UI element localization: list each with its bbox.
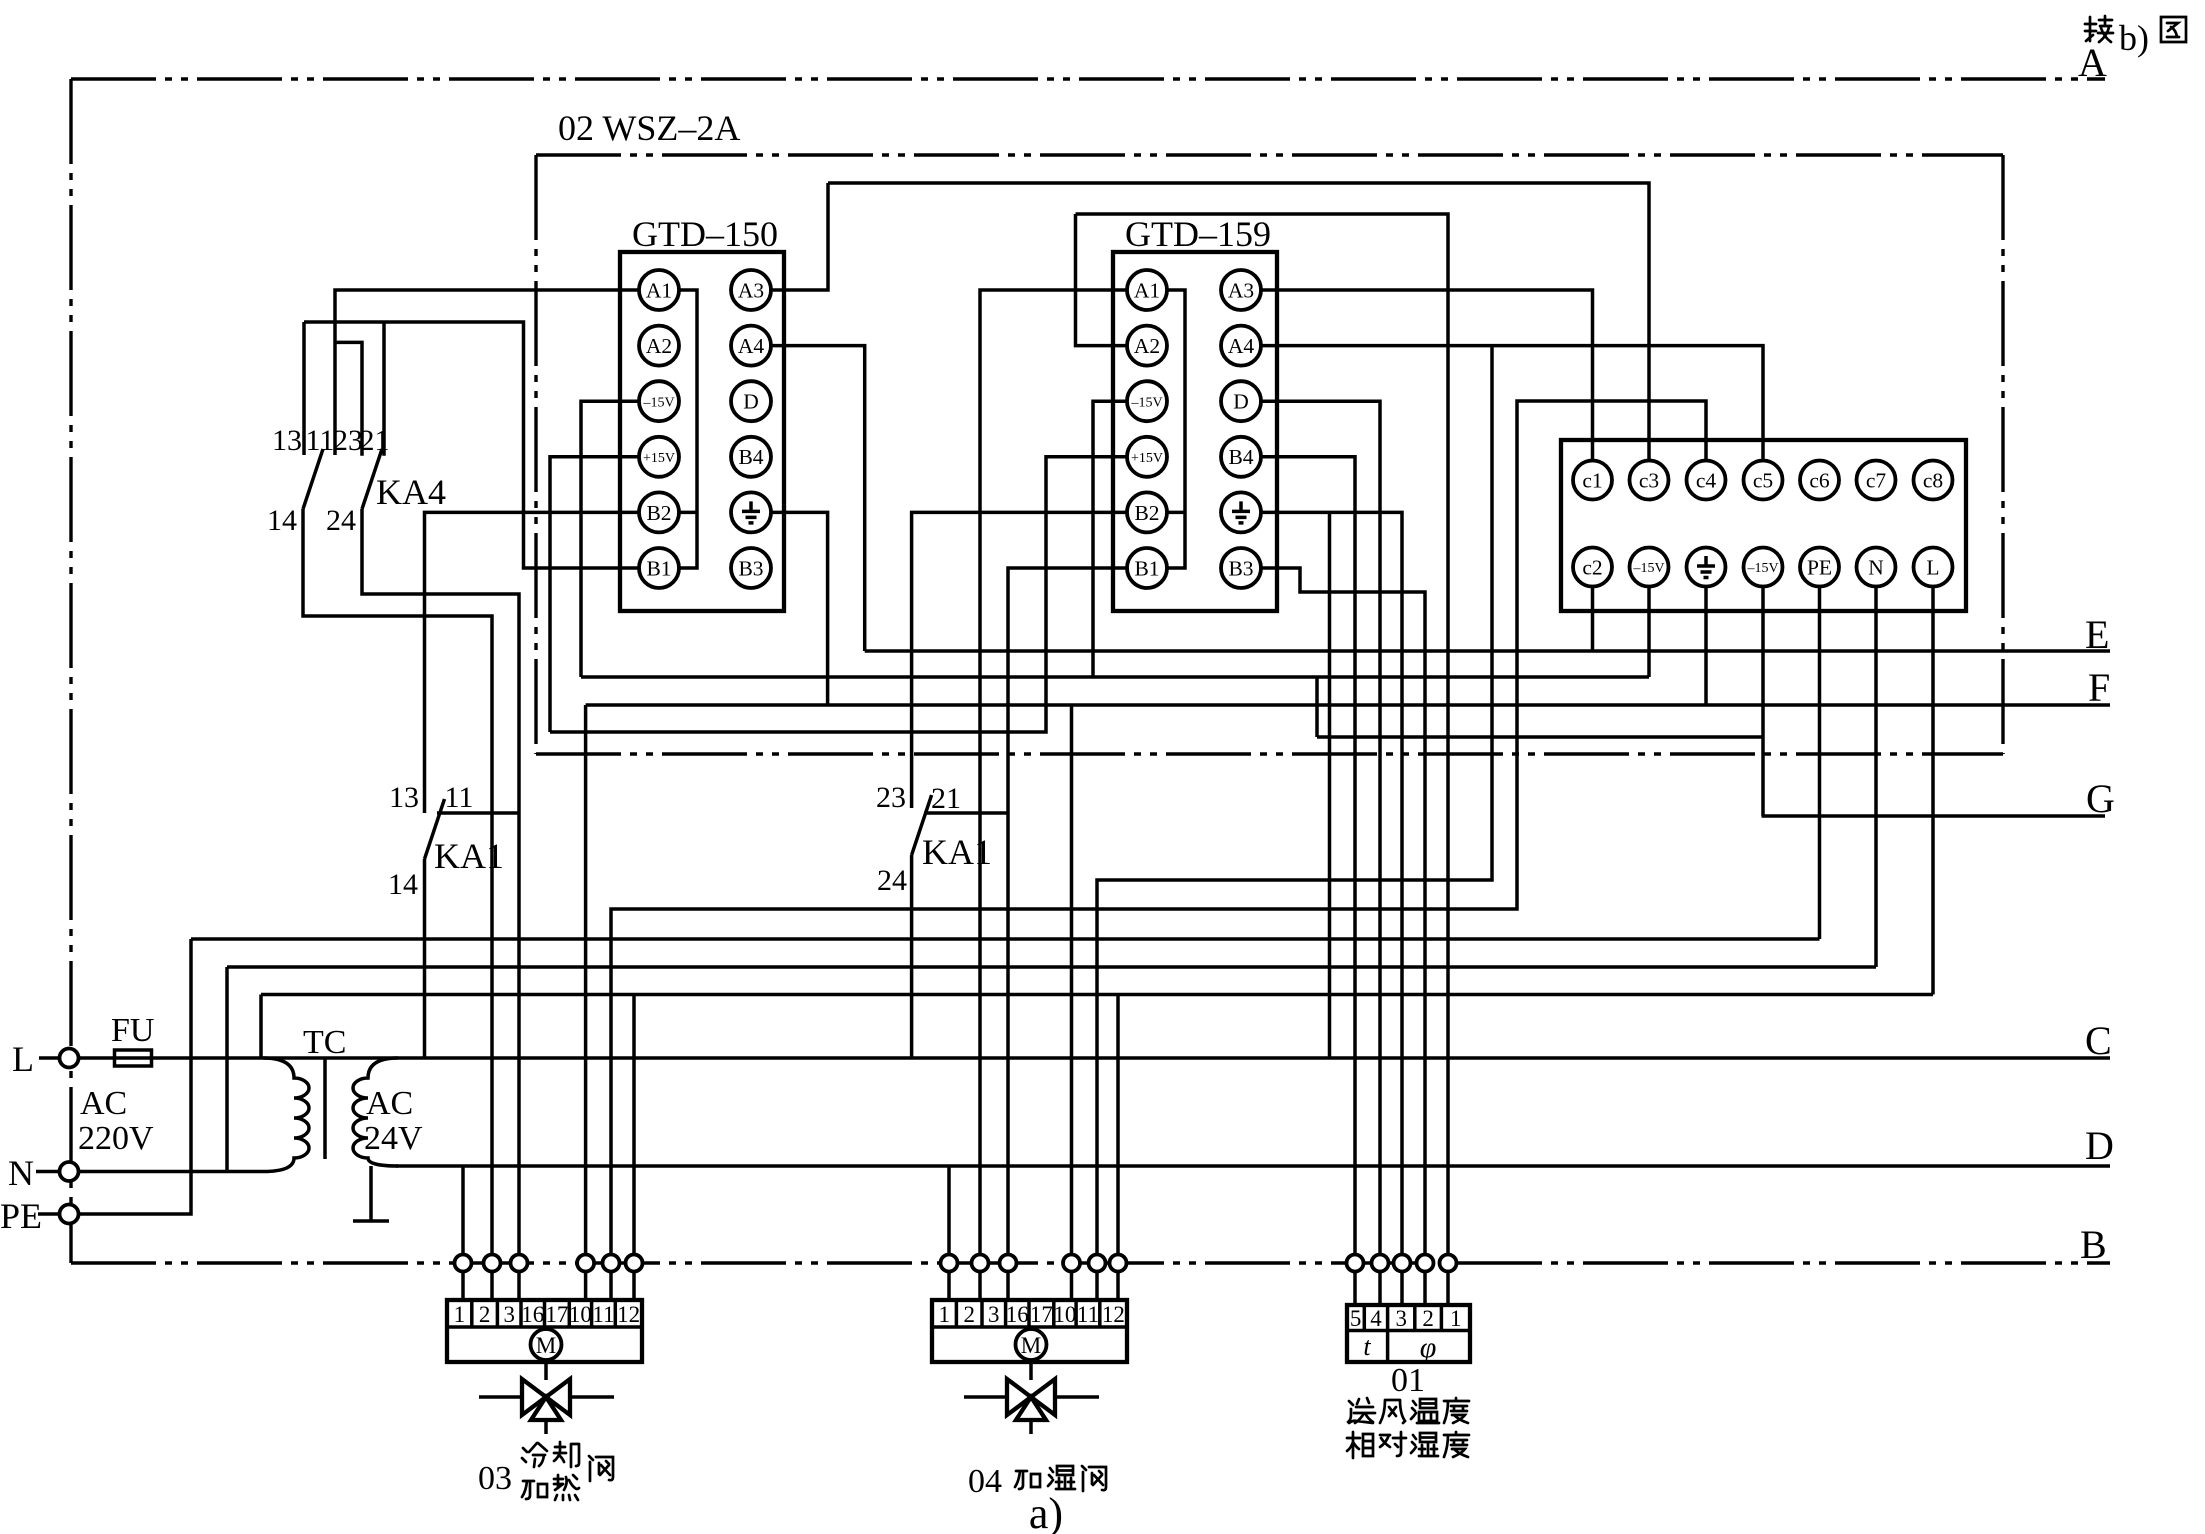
svg-text:03: 03 xyxy=(478,1460,512,1497)
svg-text:24: 24 xyxy=(326,504,356,537)
svg-text:c3: c3 xyxy=(1639,469,1659,493)
module U-GTD150 box xyxy=(620,252,784,611)
svg-text:N: N xyxy=(1868,556,1884,580)
svg-text:φ: φ xyxy=(1420,1331,1437,1364)
wire inner link A1-B2-B1 (GTD-150) xyxy=(679,290,697,568)
svg-text:L: L xyxy=(12,1039,34,1079)
contact KA4 terminal 13 lead xyxy=(302,322,306,455)
svg-text:A: A xyxy=(2078,40,2107,85)
motor M (valve 03) xyxy=(531,1329,562,1360)
svg-text:c4: c4 xyxy=(1696,469,1717,493)
node sensor-3 on B xyxy=(1394,1255,1411,1272)
valve 04 pipe lines xyxy=(964,1395,1099,1399)
bus A (top chain line) xyxy=(71,77,2105,80)
terminal c6 xyxy=(1800,461,1839,500)
pin earth (GTD-159) xyxy=(1221,492,1261,532)
pin B4 (GTD-150) xyxy=(731,437,771,477)
wire A1(159) to valve04 terminal 2 xyxy=(980,290,1127,1300)
wire B2(150) stub to KA1 xyxy=(425,512,640,813)
contact KA1#2 blade xyxy=(912,795,932,855)
node valve04-12 on B xyxy=(1110,1255,1127,1272)
terminal c2 xyxy=(1573,548,1612,587)
svg-text:2: 2 xyxy=(1422,1306,1434,1331)
svg-text:10: 10 xyxy=(569,1302,592,1327)
svg-text:b): b) xyxy=(2119,18,2149,58)
svg-text:A4: A4 xyxy=(1228,334,1255,358)
svg-text:24V: 24V xyxy=(364,1120,423,1157)
motor M (valve 04) xyxy=(1016,1329,1047,1360)
pin D (GTD-159) xyxy=(1221,381,1261,421)
pin +15V (GTD-159) xyxy=(1127,437,1167,477)
terminal c5 xyxy=(1744,461,1783,500)
svg-text:B1: B1 xyxy=(646,557,671,581)
svg-text:c2: c2 xyxy=(1582,556,1602,580)
svg-text:B1: B1 xyxy=(1134,557,1159,581)
svg-text:F: F xyxy=(2088,665,2110,710)
svg-text:02 WSZ–2A: 02 WSZ–2A xyxy=(558,108,740,148)
pin A3 (GTD-159) xyxy=(1221,270,1261,310)
module U-GTD159 box xyxy=(1113,252,1277,611)
winding primary (220V) xyxy=(263,1058,309,1172)
pin A1 (GTD-159) xyxy=(1127,270,1167,310)
wire KA4 24 to KA1 wire 11 and valve03 terminal 3 xyxy=(362,509,519,1300)
wire valve04 terminal 10 riser from bus F xyxy=(1070,705,1074,1300)
wire c2 drop to bus E xyxy=(1591,587,1595,652)
svg-text:12: 12 xyxy=(1102,1302,1125,1327)
svg-text:TC: TC xyxy=(303,1024,346,1061)
svg-text:5: 5 xyxy=(1350,1306,1362,1331)
svg-text:12: 12 xyxy=(617,1302,640,1327)
svg-text:PE: PE xyxy=(1807,556,1832,580)
wire c5 branch to valve04 terminal 11 xyxy=(1097,346,1492,1300)
wire 183 line A3(150) to c3 xyxy=(828,183,1649,461)
wire earth(150) to bus F xyxy=(771,512,828,705)
svg-text:10: 10 xyxy=(1053,1302,1076,1327)
svg-text:A4: A4 xyxy=(738,334,765,358)
node valve04-10 on B xyxy=(1063,1255,1080,1272)
contact KA4 blade 2 xyxy=(362,449,382,509)
svg-text:17: 17 xyxy=(1030,1302,1053,1327)
svg-text:24: 24 xyxy=(877,864,907,897)
svg-text:C: C xyxy=(2085,1018,2112,1063)
svg-text:L: L xyxy=(1926,556,1939,580)
wire left chain border xyxy=(69,79,72,1263)
svg-text:+15V: +15V xyxy=(1131,451,1163,466)
winding secondary (24V) xyxy=(353,1058,398,1166)
svg-text:c7: c7 xyxy=(1866,469,1887,493)
valve 03 stem xyxy=(544,1362,548,1380)
pin -15V (GTD-159) xyxy=(1127,381,1167,421)
svg-text:3: 3 xyxy=(1396,1306,1408,1331)
wire 214 line A2(159) to sensor terminal 1 xyxy=(1076,214,1449,1305)
bus E xyxy=(865,649,2110,653)
node valve03-1 on B xyxy=(455,1255,472,1272)
wire valve04 terminal 12 riser xyxy=(1116,995,1120,1301)
svg-text:16: 16 xyxy=(1006,1302,1029,1327)
svg-text:3: 3 xyxy=(988,1302,1000,1327)
wire KA1#2 side terminal 21 xyxy=(924,811,1008,815)
svg-text:17: 17 xyxy=(545,1302,568,1327)
node valve04-11 on B xyxy=(1089,1255,1106,1272)
wire KA4 14 to valve03 terminal 2 xyxy=(303,509,492,1300)
wire PE strip drop xyxy=(1818,587,1822,940)
node valve03-10 on B xyxy=(577,1255,594,1272)
svg-text:2: 2 xyxy=(963,1302,975,1327)
pin +15V (GTD-150) xyxy=(639,437,679,477)
svg-text:14: 14 xyxy=(267,504,297,537)
svg-text:21: 21 xyxy=(360,424,390,457)
wire L lead-in dash xyxy=(39,1056,60,1060)
terminal -15V (strip left) xyxy=(1630,548,1669,587)
svg-text:13: 13 xyxy=(389,781,419,814)
label 接b)图 (to diagram b) xyxy=(2085,16,2186,58)
terminal c8 xyxy=(1914,461,1953,500)
valve 04 stem xyxy=(1029,1362,1033,1380)
node N input xyxy=(60,1162,79,1181)
wire PE riser from input xyxy=(78,939,191,1214)
svg-text:AC: AC xyxy=(80,1085,127,1122)
pin B1 (GTD-159) xyxy=(1127,548,1167,588)
svg-text:14: 14 xyxy=(388,868,418,901)
svg-text:–15V: –15V xyxy=(1632,561,1664,576)
svg-text:A2: A2 xyxy=(646,334,672,358)
wire A4(150) to bus E riser xyxy=(769,346,865,651)
wire earth(159) to sensor terminal 3 xyxy=(1261,512,1402,1305)
wire B3(159) to sensor terminal 2 xyxy=(1261,568,1425,1305)
svg-text:D: D xyxy=(743,390,759,414)
node valve03-11 on B xyxy=(603,1255,620,1272)
svg-text:D: D xyxy=(2085,1123,2114,1168)
node sensor-5 on B xyxy=(1347,1255,1364,1272)
svg-text:N: N xyxy=(8,1153,34,1193)
wire earth(159) branch down to bus C xyxy=(1328,512,1332,1058)
contact KA1#1 blade xyxy=(425,799,445,859)
terminal c3 xyxy=(1630,461,1669,500)
wire valve03 terminal 1 riser from bus D xyxy=(461,1166,465,1300)
terminal c7 xyxy=(1857,461,1896,500)
wire A3(159) to c1 xyxy=(1261,290,1593,461)
svg-text:M: M xyxy=(536,1333,556,1358)
wire L strip drop xyxy=(1931,587,1935,995)
sensor 01 terminal box xyxy=(1347,1305,1470,1362)
pin labels 1 2 3 16 17 10 11 12 (valve 04) xyxy=(938,1302,1124,1327)
svg-text:11: 11 xyxy=(445,781,474,814)
svg-text:B2: B2 xyxy=(1134,501,1159,525)
terminal L (strip) xyxy=(1914,548,1953,587)
node sensor-4 on B xyxy=(1372,1255,1389,1272)
svg-text:A1: A1 xyxy=(646,279,672,303)
pin B2 (GTD-159) xyxy=(1127,492,1167,532)
svg-text:16: 16 xyxy=(521,1302,544,1327)
svg-text:04: 04 xyxy=(968,1463,1002,1500)
valve 03 three-way body xyxy=(522,1379,570,1420)
wire L riser from input xyxy=(259,995,263,1059)
wire B2(159) stub to KA1 second contact xyxy=(912,512,1127,808)
svg-text:11: 11 xyxy=(1077,1302,1099,1327)
node valve03-3 on B xyxy=(511,1255,528,1272)
wire A1(150) to KA4 terminal 11 xyxy=(335,290,639,455)
svg-text:A2: A2 xyxy=(1134,334,1160,358)
wire earth(strip) drop to bus F xyxy=(1704,587,1708,706)
node L input xyxy=(60,1049,79,1068)
bus G xyxy=(1762,814,2106,818)
node sensor-1 on B xyxy=(1440,1255,1457,1272)
node valve03-12 on B xyxy=(626,1255,643,1272)
svg-text:c1: c1 xyxy=(1582,469,1602,493)
svg-text:G: G xyxy=(2086,776,2115,821)
svg-text:11: 11 xyxy=(592,1302,614,1327)
transformer core xyxy=(323,1059,327,1159)
terminal c4 xyxy=(1687,461,1726,500)
svg-text:c5: c5 xyxy=(1753,469,1773,493)
wire valve04 terminal 1 from bus D xyxy=(947,1166,951,1300)
svg-text:4: 4 xyxy=(1370,1306,1382,1331)
node valve04-1 on B xyxy=(941,1255,958,1272)
pin A3 (GTD-150) xyxy=(731,270,771,310)
wire PE lead-in dash xyxy=(38,1212,59,1216)
bus D xyxy=(396,1164,2110,1168)
wire N input to transformer primary xyxy=(78,1170,263,1174)
wire L run xyxy=(261,993,1933,997)
svg-text:–15V: –15V xyxy=(1130,396,1162,411)
svg-text:KA1: KA1 xyxy=(434,836,504,876)
wire valve03 terminal 12 riser xyxy=(632,995,636,1301)
svg-text:2: 2 xyxy=(479,1302,491,1327)
actuator 03 terminal box xyxy=(447,1300,642,1362)
wire 677 line (-15V link to strip) xyxy=(581,675,1649,679)
pin A4 (GTD-159) xyxy=(1221,326,1261,366)
svg-text:23: 23 xyxy=(333,424,363,457)
wire N run xyxy=(227,965,1876,969)
svg-text:1: 1 xyxy=(1450,1306,1462,1331)
svg-text:A3: A3 xyxy=(738,279,764,303)
pin A2 (GTD-150) xyxy=(639,326,679,366)
wire 726 line +15V(150) to +15V(159) xyxy=(550,457,1127,732)
svg-text:B4: B4 xyxy=(1228,445,1253,469)
svg-text:–15V: –15V xyxy=(642,396,674,411)
svg-text:+15V: +15V xyxy=(643,451,675,466)
wire A4(159) to c5 top xyxy=(1261,346,1763,461)
node valve03-2 on B xyxy=(484,1255,501,1272)
valve 03 pipe lines xyxy=(479,1395,614,1399)
svg-text:23: 23 xyxy=(876,781,906,814)
svg-text:GTD–150: GTD–150 xyxy=(632,214,778,254)
pin -15V (GTD-150) xyxy=(639,381,679,421)
fuse FU xyxy=(115,1050,152,1066)
svg-text:c8: c8 xyxy=(1923,469,1943,493)
svg-text:B3: B3 xyxy=(738,557,763,581)
wire -15V(159) stub riser to 677 line xyxy=(1093,401,1127,677)
pin B3 (GTD-159) xyxy=(1221,548,1261,588)
svg-text:–15V: –15V xyxy=(1746,561,1778,576)
wire KA4 jog 11 to 23 xyxy=(335,342,362,455)
terminal PE (strip) xyxy=(1800,548,1839,587)
pin labels 5 4 3 2 1 (sensor) xyxy=(1350,1306,1462,1331)
node PE input xyxy=(60,1205,79,1224)
wire -15V(150) branch 677 to 737 xyxy=(1315,677,1319,737)
node valve04-3 on B xyxy=(1000,1255,1017,1272)
wire c4 to valve03 terminal 11 xyxy=(611,401,1706,1300)
svg-text:3: 3 xyxy=(503,1302,515,1327)
wire 737 line to -15V strip-right xyxy=(1317,735,1763,739)
terminal earth (strip) xyxy=(1687,548,1726,587)
wire B4(159) to sensor terminal 5 xyxy=(1261,457,1355,1305)
actuator 04 terminal box xyxy=(932,1300,1127,1362)
controller 02 WSZ-2A boundary xyxy=(536,155,2003,754)
wire -15V strip-right drop joining G xyxy=(1761,587,1765,817)
pin D (GTD-150) xyxy=(731,381,771,421)
wire N riser from input xyxy=(225,967,229,1172)
wire B1(159) stub to valve04 terminal 3 xyxy=(1008,568,1127,1300)
wire N strip drop xyxy=(1874,587,1878,968)
svg-text:B: B xyxy=(2080,1222,2107,1267)
pin A1 (GTD-150) xyxy=(639,270,679,310)
wire +15V(150) stub and riser xyxy=(550,457,639,732)
wire valve03 terminal 10 riser from bus F xyxy=(584,705,588,1300)
wire B1(150) stub to KA4 feed xyxy=(304,322,639,568)
pin B4 (GTD-159) xyxy=(1221,437,1261,477)
svg-text:M: M xyxy=(1021,1333,1041,1358)
bus C xyxy=(78,1056,2110,1060)
svg-text:E: E xyxy=(2085,612,2109,657)
svg-text:B4: B4 xyxy=(738,445,763,469)
pin A2 (GTD-159) xyxy=(1127,326,1167,366)
svg-text:AC: AC xyxy=(366,1085,413,1122)
svg-text:1: 1 xyxy=(454,1302,466,1327)
svg-text:13: 13 xyxy=(272,424,302,457)
svg-text:B3: B3 xyxy=(1228,557,1253,581)
wire N lead-in dash xyxy=(36,1170,59,1174)
pin B3 (GTD-150) xyxy=(731,548,771,588)
svg-text:B2: B2 xyxy=(646,501,671,525)
node valve04-2 on B xyxy=(972,1255,989,1272)
node sensor-2 on B xyxy=(1417,1255,1434,1272)
ground of 24V secondary xyxy=(353,1166,389,1221)
wire KA1#1 lower lead to bus C xyxy=(423,859,427,1058)
pin B1 (GTD-150) xyxy=(639,548,679,588)
svg-text:KA4: KA4 xyxy=(376,472,446,512)
svg-text:1: 1 xyxy=(938,1302,950,1327)
svg-text:D: D xyxy=(1233,390,1249,414)
wire A3(150) riser to line 183 xyxy=(769,183,828,290)
terminal c1 xyxy=(1573,461,1612,500)
bus F xyxy=(586,703,2110,707)
terminal N (strip) xyxy=(1857,548,1896,587)
wire PE run xyxy=(191,937,1820,941)
svg-text:GTD–159: GTD–159 xyxy=(1125,214,1271,254)
terminal strip box xyxy=(1561,440,1966,611)
svg-text:A3: A3 xyxy=(1228,279,1254,303)
contact KA4 blade 1 xyxy=(303,449,323,509)
svg-text:FU: FU xyxy=(111,1012,154,1049)
valve 04 three-way body xyxy=(1007,1379,1055,1420)
svg-text:01: 01 xyxy=(1391,1362,1425,1399)
svg-text:KA1: KA1 xyxy=(922,832,992,872)
wire D(159) to sensor terminal 4 xyxy=(1261,401,1380,1305)
terminal -15V (strip right) xyxy=(1744,548,1783,587)
svg-text:11: 11 xyxy=(306,424,335,457)
svg-text:21: 21 xyxy=(931,782,961,815)
wire -15V(150) stub and riser xyxy=(581,401,639,677)
wire A2(159) riser xyxy=(1076,214,1128,346)
svg-text:a): a) xyxy=(1029,1489,1063,1534)
wire inner link A1-B2-B1 (GTD-159) xyxy=(1167,290,1185,568)
wire KA1#2 lower lead to bus C xyxy=(910,855,914,1058)
svg-text:220V: 220V xyxy=(78,1120,154,1157)
svg-text:A1: A1 xyxy=(1134,279,1160,303)
svg-text:c6: c6 xyxy=(1809,469,1830,493)
wire KA1#1 side terminal 11 xyxy=(437,811,519,815)
bus B (bottom chain line) xyxy=(71,1261,2110,1264)
pin A4 (GTD-150) xyxy=(731,326,771,366)
svg-text:PE: PE xyxy=(0,1196,42,1236)
svg-text:t: t xyxy=(1363,1332,1371,1361)
pin earth (GTD-150) xyxy=(731,492,771,532)
contact KA4 terminal 21 lead xyxy=(382,322,386,456)
pin B2 (GTD-150) xyxy=(639,492,679,532)
pin labels 1 2 3 16 17 10 11 12 (valve 03) xyxy=(454,1302,640,1327)
wire -15V strip-left drop xyxy=(1647,587,1651,678)
